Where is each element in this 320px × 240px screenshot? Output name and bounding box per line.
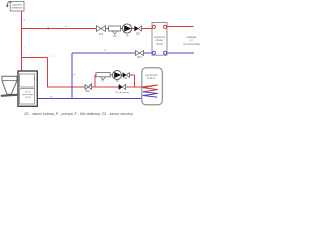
svg-text:ZZ1: ZZ1 — [123, 78, 128, 80]
svg-text:zk: zk — [65, 26, 67, 28]
svg-text:ZK - zawór kulowy, P - pompa,: ZK - zawór kulowy, P - pompa, F - filtr … — [24, 112, 133, 116]
svg-text:25 kW: 25 kW — [25, 97, 31, 99]
svg-text:instalacja: instalacja — [187, 36, 197, 39]
svg-text:c.o.: c.o. — [190, 40, 194, 42]
svg-text:ZK2: ZK2 — [99, 34, 104, 36]
svg-text:C.W.U.: C.W.U. — [147, 76, 155, 80]
svg-text:(od wymiennika): (od wymiennika) — [183, 44, 200, 46]
svg-text:wymiennik: wymiennik — [154, 37, 166, 39]
svg-text:ZM1: ZM1 — [85, 91, 90, 93]
svg-text:zs: zs — [50, 56, 52, 58]
svg-text:wzbiorcze: wzbiorcze — [12, 7, 24, 10]
svg-text:ZZ2: ZZ2 — [136, 34, 141, 36]
svg-text:płytowy: płytowy — [156, 39, 165, 42]
svg-text:ZK3: ZK3 — [137, 57, 142, 59]
svg-text:30 kW: 30 kW — [156, 44, 163, 46]
svg-text:ZZ-drogowy: ZZ-drogowy — [115, 91, 130, 94]
